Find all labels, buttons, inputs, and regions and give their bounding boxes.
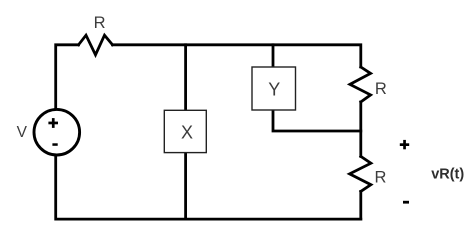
wire Y branch bottom to node bbox=[273, 110, 361, 131]
wire right bottom segment bbox=[359, 191, 362, 219]
plus sign of vR(t) polarity bbox=[400, 140, 409, 149]
svg-text:R: R bbox=[375, 80, 387, 98]
minus sign of vR(t) polarity bbox=[403, 201, 409, 204]
voltage source plus sign bbox=[48, 118, 58, 128]
svg-text:R: R bbox=[94, 14, 106, 32]
wire X branch top bbox=[184, 45, 187, 111]
wire right middle segment bbox=[359, 102, 362, 156]
block Y bbox=[252, 67, 296, 110]
resistor R3 bbox=[350, 156, 371, 191]
svg-text:V: V bbox=[17, 124, 28, 141]
wire top segment to right bbox=[113, 45, 361, 67]
block X bbox=[164, 110, 206, 152]
resistor R2 bbox=[350, 67, 371, 102]
wire bottom bbox=[56, 155, 361, 219]
svg-text:Y: Y bbox=[268, 79, 280, 99]
voltage source minus sign bbox=[52, 143, 57, 146]
wire X branch bottom bbox=[184, 153, 187, 220]
voltage source V1 bbox=[34, 109, 80, 155]
svg-text:vR(t): vR(t) bbox=[431, 167, 464, 183]
wire top-left segment bbox=[56, 45, 79, 109]
svg-text:R: R bbox=[375, 169, 387, 187]
svg-text:X: X bbox=[181, 123, 193, 143]
wire Y branch top bbox=[272, 45, 275, 67]
resistor R1 bbox=[79, 35, 113, 55]
